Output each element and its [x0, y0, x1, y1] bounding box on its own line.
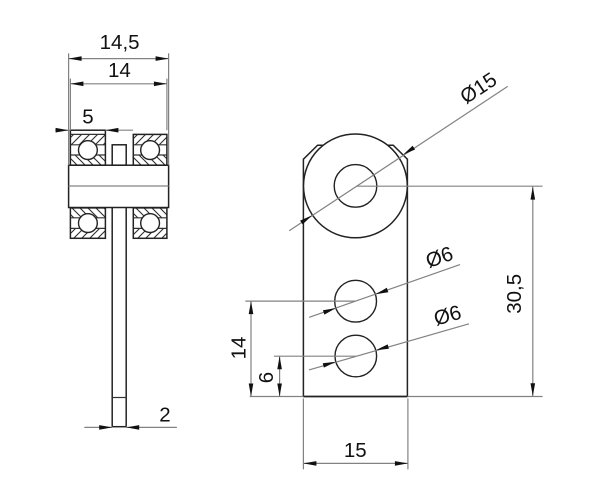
- svg-text:6: 6: [255, 372, 278, 383]
- svg-text:14: 14: [108, 59, 131, 82]
- svg-text:15: 15: [344, 439, 367, 462]
- svg-text:14: 14: [227, 337, 250, 360]
- svg-text:14,5: 14,5: [100, 31, 140, 54]
- svg-text:30,5: 30,5: [503, 274, 526, 314]
- svg-text:5: 5: [82, 106, 93, 129]
- svg-text:2: 2: [159, 404, 170, 427]
